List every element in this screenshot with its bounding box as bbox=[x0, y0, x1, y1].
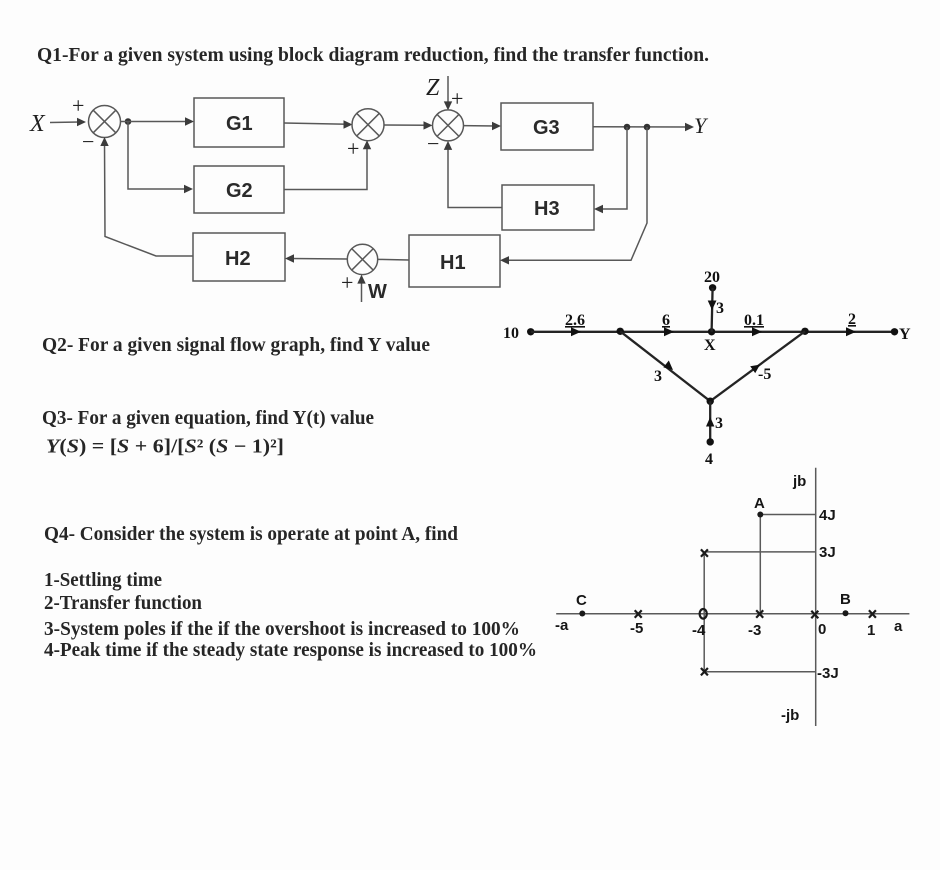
svg-text:2: 2 bbox=[848, 311, 856, 328]
node 10 label bbox=[503, 325, 519, 342]
svg-text:−: − bbox=[82, 129, 94, 154]
svg-text:1-Settling time: 1-Settling time bbox=[44, 570, 162, 591]
svg-text:-5: -5 bbox=[630, 620, 643, 637]
svg-text:2.6: 2.6 bbox=[565, 312, 585, 329]
wire G1 to summer S2 bbox=[284, 123, 348, 124]
vertical line through A and -3 bbox=[759, 515, 761, 614]
arrow on branch 3 (bottom) bbox=[706, 417, 714, 427]
svg-text:3: 3 bbox=[716, 300, 724, 317]
wire node to G1 bbox=[120, 121, 189, 123]
wire G2 up into S2 bbox=[284, 144, 367, 190]
svg-text:W: W bbox=[368, 281, 387, 303]
arrow on branch 3 (20 to X) bbox=[708, 301, 717, 311]
branch gain 2 bbox=[848, 311, 856, 328]
node V1 dot bbox=[617, 328, 624, 335]
svg-text:0: 0 bbox=[818, 621, 826, 638]
pole X at 1 bbox=[869, 610, 876, 617]
svg-text:Y: Y bbox=[899, 326, 911, 343]
node N1 on output line bbox=[624, 124, 631, 131]
svg-text:+: + bbox=[347, 136, 359, 161]
input label X bbox=[29, 111, 46, 137]
svg-text:Y: Y bbox=[694, 113, 709, 138]
plus sign at S2 bbox=[347, 136, 359, 161]
svg-text:3: 3 bbox=[715, 415, 723, 432]
svg-text:10: 10 bbox=[503, 325, 519, 342]
horizontal line at -3J bbox=[704, 671, 816, 673]
arrow on branch 2 bbox=[846, 327, 856, 336]
arrow on branch -5 bbox=[750, 365, 760, 374]
summer SW bbox=[347, 244, 377, 274]
wire W summer to H1 bbox=[378, 258, 409, 261]
vertical line through -4 poles bbox=[703, 554, 705, 671]
node 4 dot bbox=[707, 438, 714, 445]
svg-text:H2: H2 bbox=[225, 248, 251, 270]
wire S3 to G3 bbox=[464, 125, 497, 127]
svg-text:20: 20 bbox=[704, 269, 720, 286]
svg-text:−: − bbox=[427, 131, 439, 156]
wire SW to H2 bbox=[290, 258, 347, 261]
svg-text:3: 3 bbox=[654, 368, 662, 385]
svg-text:-4: -4 bbox=[692, 622, 706, 639]
branch gain 3 (left) bbox=[654, 368, 662, 385]
wire G3 to output Y bbox=[593, 126, 689, 128]
main horizontal branch bbox=[531, 331, 895, 333]
block G1 bbox=[194, 98, 284, 147]
svg-text:G2: G2 bbox=[226, 180, 253, 202]
wire Z down into S3 bbox=[447, 76, 449, 106]
branch V1 to bottom node bbox=[620, 331, 710, 401]
svg-text:H1: H1 bbox=[440, 252, 466, 274]
svg-text:X: X bbox=[704, 337, 716, 354]
svg-text:Q2- For a given signal flow gr: Q2- For a given signal flow graph, find … bbox=[42, 335, 430, 356]
a axis bbox=[556, 613, 909, 615]
block G2 bbox=[194, 166, 284, 213]
pole X at -4+3j bbox=[701, 549, 708, 556]
summer S2 bbox=[352, 109, 384, 141]
node Y label bbox=[899, 326, 911, 343]
svg-text:-5: -5 bbox=[758, 366, 771, 383]
output label Y bbox=[694, 113, 709, 138]
branch gain 6 bbox=[662, 312, 670, 329]
pole X at -3 bbox=[756, 610, 763, 617]
minus sign at S3 bbox=[427, 131, 439, 156]
zero O at -4 bbox=[700, 609, 707, 619]
arrow on branch 6 bbox=[664, 327, 674, 336]
svg-text:4J: 4J bbox=[819, 507, 836, 524]
wire N2 down to H1 bbox=[505, 127, 647, 260]
svg-text:0.1: 0.1 bbox=[744, 312, 764, 329]
svg-text:4-Peak time if the steady stat: 4-Peak time if the steady state response… bbox=[44, 640, 537, 661]
svg-text:H3: H3 bbox=[534, 198, 560, 220]
svg-text:A: A bbox=[754, 495, 765, 512]
node N2 on output line bbox=[644, 124, 651, 131]
svg-text:Z: Z bbox=[426, 75, 440, 101]
svg-text:Q1-For a given system using bl: Q1-For a given system using block diagra… bbox=[37, 45, 709, 66]
svg-text:Y(S) = [S + 6]/[S² (S − 1)²]: Y(S) = [S + 6]/[S² (S − 1)²] bbox=[46, 437, 284, 458]
wire X to summer S1 bbox=[50, 121, 80, 124]
branch gain -5 bbox=[758, 366, 771, 383]
wire H2 to S1 feedback bbox=[105, 142, 194, 256]
point A dot bbox=[757, 512, 763, 518]
node 20 dot bbox=[709, 284, 716, 291]
svg-text:1: 1 bbox=[867, 622, 875, 639]
svg-text:jb: jb bbox=[792, 473, 806, 490]
pole X at -5 bbox=[635, 610, 642, 617]
point B dot bbox=[843, 610, 849, 616]
node Y dot bbox=[891, 328, 898, 335]
wire N1 down to H3 bbox=[599, 127, 627, 209]
minus sign at S1 bbox=[82, 129, 94, 154]
node X label bbox=[704, 337, 716, 354]
summer S3 bbox=[433, 110, 464, 141]
horizontal line at 4J bbox=[760, 514, 815, 516]
svg-text:2-Transfer function: 2-Transfer function bbox=[44, 593, 202, 614]
svg-text:+: + bbox=[451, 86, 463, 111]
svg-text:+: + bbox=[72, 93, 84, 118]
plus sign at S3 bbox=[451, 86, 463, 111]
svg-text:4: 4 bbox=[705, 451, 713, 468]
svg-text:-3: -3 bbox=[748, 622, 761, 639]
branch gain 2.6 bbox=[565, 312, 585, 329]
svg-text:Q3- For a given equation, find: Q3- For a given equation, find Y(t) valu… bbox=[42, 408, 374, 429]
wire W input into SW bbox=[361, 279, 363, 302]
svg-text:3J: 3J bbox=[819, 544, 836, 561]
point C dot bbox=[579, 611, 585, 617]
pole X at origin bbox=[811, 611, 818, 618]
wire H3 to S3 feedback bbox=[448, 145, 502, 208]
node X dot bbox=[708, 328, 715, 335]
node 20 label bbox=[704, 269, 720, 286]
svg-text:G3: G3 bbox=[533, 117, 560, 139]
arrow into summer S1 bbox=[77, 118, 86, 126]
arrow on branch 2.6 bbox=[571, 327, 581, 336]
wire node down to G2 bbox=[128, 122, 188, 190]
plus sign at S1 bbox=[72, 93, 84, 118]
branch gain 3 (top) bbox=[716, 300, 724, 317]
pole X at -4-3j bbox=[701, 668, 708, 675]
svg-text:6: 6 bbox=[662, 312, 670, 329]
node 10 dot bbox=[527, 328, 534, 335]
svg-text:C: C bbox=[576, 592, 587, 609]
node after S1 bbox=[125, 118, 132, 125]
summer S1 bbox=[89, 106, 121, 138]
block G3 bbox=[501, 103, 593, 150]
svg-text:-jb: -jb bbox=[781, 707, 799, 724]
wire S2 to S3 bbox=[384, 124, 429, 126]
branch gain 0.1 bbox=[744, 312, 764, 329]
node V2 dot bbox=[801, 328, 808, 335]
branch 4 to bottom node bbox=[709, 401, 711, 442]
branch gain 3 (bottom) bbox=[715, 415, 723, 432]
svg-text:G1: G1 bbox=[226, 113, 253, 135]
block H1 bbox=[409, 235, 500, 287]
input label W bbox=[368, 281, 387, 303]
jb axis bbox=[815, 468, 817, 726]
plus sign at SW bbox=[341, 270, 353, 295]
node 4 label bbox=[705, 451, 713, 468]
svg-text:3-System poles if the if the o: 3-System poles if the if the overshoot i… bbox=[44, 619, 520, 640]
arrow on branch 0.1 bbox=[752, 327, 762, 336]
svg-text:+: + bbox=[341, 270, 353, 295]
svg-text:X: X bbox=[29, 111, 46, 137]
branch bottom node to V2 bbox=[710, 331, 805, 401]
svg-text:a: a bbox=[894, 618, 903, 635]
svg-text:-3J: -3J bbox=[817, 665, 839, 682]
horizontal line at 3J bbox=[704, 551, 816, 553]
bottom node dot bbox=[707, 398, 714, 405]
input label Z bbox=[426, 75, 440, 101]
block H3 bbox=[502, 185, 594, 230]
svg-text:B: B bbox=[840, 591, 851, 608]
branch 20 to X bbox=[712, 288, 713, 332]
block H2 bbox=[193, 233, 285, 281]
svg-text:Q4- Consider the system is ope: Q4- Consider the system is operate at po… bbox=[44, 524, 458, 545]
svg-text:-a: -a bbox=[555, 617, 569, 634]
arrow on branch 3 (left diagonal) bbox=[663, 361, 673, 371]
